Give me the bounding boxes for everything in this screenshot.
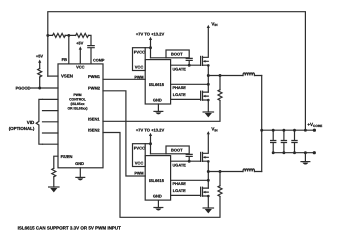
wire PVCC box top to supply (upper): [145, 47, 150, 49]
ground (FS/EN): [49, 187, 59, 192]
svg-text:OR ISL68xx): OR ISL68xx): [68, 106, 88, 110]
svg-text:(ISL65xx: (ISL65xx: [71, 102, 85, 106]
svg-text:VIN: VIN: [211, 127, 218, 133]
wire +VCORE bus: [262, 129, 315, 131]
svg-text:PWM1: PWM1: [88, 74, 101, 79]
wire UGATE (lower): [171, 160, 201, 162]
node PGOOD junction: [38, 87, 41, 90]
capacitor C3 bootstrap (lower): [186, 154, 192, 161]
wire controller GND pin: [79, 168, 81, 178]
resistor R3 (PGOOD pull-up): [38, 69, 42, 77]
op-amp U1 PWM controller box: [58, 64, 103, 168]
svg-text:ISEN1: ISEN1: [88, 116, 100, 121]
svg-text:GND: GND: [153, 97, 162, 102]
svg-text:(OPTIONAL): (OPTIONAL): [9, 126, 35, 131]
wire phase to inductor (lower): [208, 171, 261, 173]
ground (controller GND): [76, 177, 85, 180]
node PVCC supply junction (lower): [149, 142, 152, 145]
resistor R4 (FS/EN): [52, 168, 56, 177]
node sense line to bus: [304, 129, 307, 132]
svg-text:BOOT: BOOT: [171, 52, 183, 57]
node Q3 source: [207, 160, 210, 163]
node rail/bus junction: [260, 129, 263, 132]
op-amp U3 driver ISL6615 (lower): [145, 156, 170, 201]
svg-text:LGATE: LGATE: [173, 188, 186, 193]
capacitor C5 (output): [281, 130, 286, 153]
svg-text:+VCORE: +VCORE: [307, 122, 322, 128]
svg-text:PGOOD: PGOOD: [16, 85, 31, 90]
svg-text:CONTROL: CONTROL: [69, 98, 86, 102]
svg-text:ISL6615: ISL6615: [149, 82, 165, 87]
wire FS/EN: [54, 156, 58, 168]
node ISEN1 tap: [219, 74, 222, 77]
node Q1 source: [207, 64, 210, 67]
node phase/inductor tap (lower): [207, 170, 210, 173]
svg-text:+5V: +5V: [36, 54, 44, 59]
resistor R5 (ISEN1 sense): [218, 90, 222, 101]
wire FS/EN resistor to ground: [53, 177, 55, 187]
ground (output return): [301, 162, 310, 165]
svg-text:UGATE: UGATE: [173, 162, 187, 167]
wire ISEN2 resistor to phase: [219, 172, 221, 186]
op-amp U2 driver ISL6615 (upper): [145, 60, 170, 104]
node FB divider tap on VSEN line: [46, 34, 49, 37]
wire phase node vertical (upper): [207, 65, 209, 92]
wire UGATE (upper): [171, 64, 201, 66]
node PHASE junction (upper): [207, 83, 210, 86]
node PHASE junction (lower): [207, 179, 210, 182]
VID input bracket: [36, 99, 42, 144]
node ground tap on return bus: [304, 151, 307, 154]
svg-text:COMP: COMP: [93, 58, 105, 62]
pin box BOOT (lower): [166, 146, 189, 154]
wire VID bit 1: [43, 110, 59, 112]
wire driver U3 GND pin: [157, 200, 159, 207]
wire VID bit 2: [43, 121, 59, 123]
wire PHASE pin (upper): [171, 83, 209, 85]
node Q4 source: [207, 195, 210, 198]
wire output return bus: [273, 152, 314, 154]
node boot cap junction (lower): [188, 160, 191, 163]
svg-text:ISEN2: ISEN2: [88, 128, 100, 133]
wire VID bit 3: [43, 132, 59, 134]
svg-text:VCC: VCC: [76, 64, 85, 69]
inductor L1: [243, 73, 255, 76]
ground (Q4 source): [203, 208, 213, 213]
resistor R1 (feedback): [53, 33, 66, 37]
svg-text:+7V TO +13.2V: +7V TO +13.2V: [136, 128, 165, 133]
capacitor C1 (compensation): [88, 46, 94, 48]
wire phase node vertical (lower): [207, 161, 209, 188]
capacitor C4 (output): [271, 130, 276, 153]
wire VSEN remote sense loop (top border + right border): [48, 12, 306, 131]
wire BOOT rail (upper): [151, 57, 167, 59]
svg-text:PWM: PWM: [134, 172, 143, 176]
wire BOOT rail (lower): [151, 153, 167, 155]
node FB junction: [67, 34, 70, 37]
wire LGATE (lower): [171, 194, 201, 196]
ground (driver U3 GND): [154, 208, 163, 211]
node Q2 source: [207, 99, 210, 102]
svg-text:LGATE: LGATE: [173, 92, 186, 97]
svg-text:ISL6615: ISL6615: [149, 178, 165, 183]
pin box BOOT (upper): [166, 50, 189, 58]
svg-text:GND: GND: [75, 161, 84, 166]
inductor L2: [243, 169, 255, 172]
wire PHASE pin (lower): [171, 179, 209, 181]
transistor Q1 upper high-side MOSFET: [201, 56, 209, 65]
svg-text:PHASE: PHASE: [173, 181, 187, 186]
wire PWM2 to driver U3: [103, 91, 145, 176]
wire phase to inductor (upper): [208, 75, 261, 77]
wire VID bit 4: [43, 143, 59, 145]
svg-text:VIN: VIN: [211, 21, 218, 27]
svg-text:FB: FB: [62, 57, 67, 62]
svg-text:GND: GND: [153, 193, 162, 198]
pin box PVCC/VCC (upper driver): [133, 48, 146, 71]
wire ISEN1: [103, 101, 220, 122]
node return terminal: [313, 151, 316, 154]
resistor R2 (compensation): [76, 33, 89, 37]
resistor R6 (ISEN2 sense): [218, 186, 222, 197]
wire Q4 source to ground: [207, 196, 209, 208]
svg-text:PVCC: PVCC: [134, 50, 145, 55]
ground (driver U2 GND): [154, 111, 163, 114]
node PVCC supply junction (upper): [149, 46, 152, 49]
svg-text:FS/EN: FS/EN: [61, 154, 73, 159]
svg-text:ISL6615 CAN SUPPORT 3.3V OR 5V: ISL6615 CAN SUPPORT 3.3V OR 5V PWM INPUT: [18, 225, 122, 230]
svg-text:+5V: +5V: [76, 41, 84, 46]
svg-text:PHASE: PHASE: [173, 85, 187, 90]
wire PGOOD: [31, 77, 58, 88]
node boot cap junction (upper): [188, 64, 191, 67]
svg-text:PVCC: PVCC: [134, 146, 145, 151]
capacitor C6 (output): [292, 130, 297, 153]
pin box PVCC/VCC (lower driver): [133, 144, 146, 167]
wire ISEN1 resistor to phase: [219, 76, 221, 90]
wire VID bit 0: [43, 98, 59, 100]
svg-text:UGATE: UGATE: [173, 66, 187, 71]
svg-text:VCC: VCC: [135, 161, 144, 166]
ground (Q2 source): [203, 112, 213, 117]
node ISEN2 tap: [219, 170, 222, 173]
svg-text:VCC: VCC: [135, 65, 144, 70]
wire driver U2 GND pin: [157, 104, 159, 111]
wire VSEN entry to controller: [48, 75, 58, 77]
node +VCORE terminal: [313, 129, 316, 132]
wire return bus to ground: [304, 153, 306, 162]
wire compensation chain: [48, 35, 91, 64]
wire ISEN2: [103, 133, 220, 218]
transistor Q4 lower low-side MOSFET: [201, 187, 209, 196]
svg-text:PWM2: PWM2: [88, 86, 101, 91]
transistor Q2 upper low-side MOSFET: [201, 91, 209, 100]
wire Q2 source to ground: [207, 100, 209, 112]
node phase/inductor tap (upper): [207, 74, 210, 77]
svg-text:PWM: PWM: [134, 76, 143, 80]
wire PWM1 to driver U2: [103, 78, 145, 80]
svg-text:VID: VID: [27, 120, 35, 125]
wire PVCC box top to supply (lower): [145, 143, 150, 145]
wire FB pin: [68, 35, 70, 64]
wire LGATE (upper): [171, 98, 201, 100]
svg-text:BOOT: BOOT: [171, 148, 183, 153]
svg-text:+7V TO +13.2V: +7V TO +13.2V: [136, 32, 165, 37]
capacitor C2 bootstrap (upper): [186, 58, 192, 65]
svg-text:VSEN: VSEN: [61, 74, 73, 79]
transistor Q3 lower high-side MOSFET: [201, 152, 209, 161]
wire output rail: [261, 76, 263, 172]
